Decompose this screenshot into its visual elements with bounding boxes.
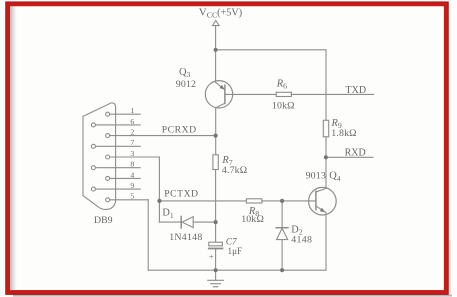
svg-text:1μF: 1μF: [228, 246, 243, 256]
svg-text:1: 1: [130, 106, 134, 115]
svg-text:+: +: [209, 251, 214, 261]
svg-text:4: 4: [130, 170, 134, 179]
svg-text:9013: 9013: [306, 171, 326, 182]
svg-text:3: 3: [130, 149, 134, 158]
svg-text:9: 9: [130, 181, 134, 190]
svg-text:DB9: DB9: [94, 215, 113, 226]
svg-text:8: 8: [130, 160, 134, 169]
svg-text:RXD: RXD: [345, 147, 366, 158]
svg-text:C7: C7: [226, 236, 237, 246]
svg-text:VCC(+5V): VCC(+5V): [199, 6, 242, 19]
svg-text:PCRXD: PCRXD: [162, 125, 197, 136]
svg-text:PCTXD: PCTXD: [164, 189, 198, 200]
svg-text:5: 5: [130, 192, 134, 201]
svg-text:10kΩ: 10kΩ: [241, 214, 264, 225]
svg-text:TXD: TXD: [346, 85, 367, 96]
svg-text:1.8kΩ: 1.8kΩ: [331, 128, 356, 139]
svg-text:6: 6: [130, 117, 134, 126]
svg-text:4.7kΩ: 4.7kΩ: [222, 165, 247, 176]
svg-text:4148: 4148: [291, 235, 312, 246]
svg-text:1N4148: 1N4148: [169, 232, 202, 243]
svg-text:10kΩ: 10kΩ: [272, 101, 295, 112]
svg-text:9012: 9012: [176, 79, 196, 90]
svg-text:7: 7: [130, 138, 134, 147]
svg-text:2: 2: [130, 128, 134, 137]
